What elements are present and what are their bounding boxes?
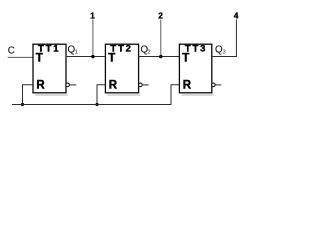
wire Q1 output to T input of TT2 <box>66 56 105 58</box>
node Q3 label <box>215 45 226 56</box>
flip-flop TT2 body <box>105 44 140 95</box>
junction dot on reset bus at TT2 <box>95 103 98 106</box>
node Q1 label <box>68 45 78 56</box>
svg-text:1: 1 <box>75 50 78 56</box>
wire reset bus <box>12 104 172 106</box>
wire C to T input of TT1 <box>8 56 33 58</box>
svg-text:T: T <box>108 53 115 65</box>
svg-text:R: R <box>109 79 118 91</box>
wire R input of TT2 <box>97 85 105 105</box>
wire stub from TT1 inverted output <box>69 84 76 86</box>
junction dot on Q1 wire <box>91 55 94 58</box>
svg-text:T: T <box>36 53 43 65</box>
junction dot on Q2 wire <box>159 55 162 58</box>
wire stub from TT3 inverted output <box>215 84 221 86</box>
inverted output bubble of TT1 <box>66 83 70 87</box>
junction dot on reset bus at TT1 <box>21 103 24 106</box>
wire riser to node 1 <box>92 20 94 57</box>
wire R input of TT1 <box>23 85 34 105</box>
flip-flop TT1 body <box>33 44 68 95</box>
svg-text:2: 2 <box>147 50 150 56</box>
svg-text:1: 1 <box>90 10 95 20</box>
svg-text:2: 2 <box>158 10 163 20</box>
inverted output bubble of TT2 <box>139 83 143 87</box>
svg-text:T: T <box>182 53 189 65</box>
flip-flop TT3 body <box>179 44 213 95</box>
svg-text:R: R <box>36 79 45 91</box>
node Q2 label <box>141 45 151 56</box>
wire R input of TT3 <box>171 85 179 105</box>
inverted output bubble of TT3 <box>212 83 216 87</box>
svg-text:R: R <box>183 79 192 91</box>
svg-text:4: 4 <box>234 10 239 20</box>
svg-text:C: C <box>8 45 15 56</box>
wire riser to node 2 <box>160 20 162 57</box>
wire stub from TT2 inverted output <box>142 84 149 86</box>
svg-text:3: 3 <box>223 50 226 56</box>
wire Q2 output to T input of TT3 <box>139 56 180 58</box>
wire Q3 output to node 4 <box>212 20 237 57</box>
